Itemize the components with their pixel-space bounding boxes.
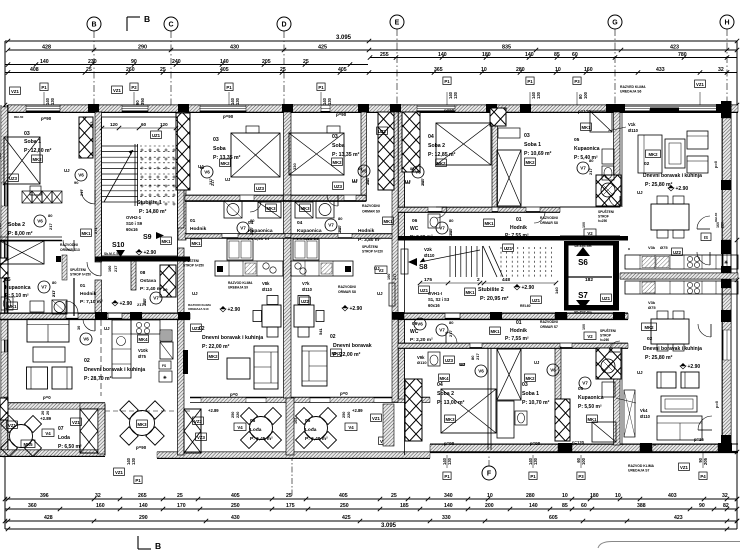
svg-text:10: 10 bbox=[487, 493, 493, 499]
svg-text:V6: V6 bbox=[550, 368, 556, 373]
svg-text:UREĐAJA S9: UREĐAJA S9 bbox=[228, 286, 248, 290]
svg-text:Ø110: Ø110 bbox=[424, 253, 435, 258]
svg-text:60: 60 bbox=[141, 122, 147, 127]
svg-text:p=90: p=90 bbox=[136, 445, 147, 450]
svg-text:04: 04 bbox=[297, 220, 303, 226]
svg-text:260: 260 bbox=[126, 67, 135, 73]
svg-text:Soba 1: Soba 1 bbox=[522, 391, 539, 397]
svg-text:UJ: UJ bbox=[534, 360, 540, 365]
svg-text:MK4: MK4 bbox=[439, 376, 449, 381]
svg-text:p=0: p=0 bbox=[713, 160, 718, 168]
svg-text:MK2: MK2 bbox=[208, 354, 218, 359]
svg-text:180: 180 bbox=[482, 52, 491, 58]
svg-text:60: 60 bbox=[572, 52, 578, 58]
svg-text:P: 13,00 m²: P: 13,00 m² bbox=[437, 400, 465, 406]
svg-text:+2.89: +2.89 bbox=[208, 408, 219, 413]
svg-text:P1: P1 bbox=[527, 79, 533, 84]
svg-text:UJ: UJ bbox=[405, 180, 411, 185]
svg-text:V10k: V10k bbox=[138, 348, 148, 353]
svg-text:165: 165 bbox=[294, 418, 298, 424]
svg-text:p=90: p=90 bbox=[530, 441, 541, 446]
svg-text:217: 217 bbox=[211, 180, 215, 186]
svg-text:140: 140 bbox=[554, 287, 559, 294]
svg-text:P: 10,70 m²: P: 10,70 m² bbox=[522, 400, 550, 406]
svg-text:Loda: Loda bbox=[58, 435, 70, 441]
svg-text:02: 02 bbox=[644, 161, 650, 167]
svg-text:405: 405 bbox=[338, 67, 347, 73]
svg-text:P: 5,10 m²: P: 5,10 m² bbox=[5, 293, 29, 299]
svg-text:80: 80 bbox=[200, 166, 204, 170]
svg-text:V6: V6 bbox=[415, 170, 421, 175]
svg-text:WC: WC bbox=[410, 329, 419, 335]
svg-text:MK1: MK1 bbox=[161, 239, 171, 244]
svg-text:160: 160 bbox=[584, 67, 593, 73]
svg-text:+2.90: +2.90 bbox=[228, 307, 241, 313]
svg-text:130: 130 bbox=[50, 97, 55, 105]
svg-text:S7: S7 bbox=[578, 291, 588, 300]
svg-text:p=0: p=0 bbox=[714, 400, 719, 408]
svg-text:ORMAR S7: ORMAR S7 bbox=[540, 325, 558, 329]
svg-text:P: 7,10 m²: P: 7,10 m² bbox=[80, 299, 103, 305]
svg-text:UJ: UJ bbox=[377, 291, 383, 296]
svg-text:80: 80 bbox=[410, 167, 414, 171]
svg-text:STROF: STROF bbox=[598, 215, 609, 219]
svg-text:3.095: 3.095 bbox=[336, 35, 352, 41]
svg-text:05: 05 bbox=[5, 277, 11, 283]
svg-text:V7: V7 bbox=[439, 328, 445, 333]
svg-text:20: 20 bbox=[41, 411, 45, 415]
svg-text:P: 20,95 m²: P: 20,95 m² bbox=[480, 296, 509, 302]
svg-text:P1: P1 bbox=[444, 474, 450, 479]
svg-text:780: 780 bbox=[678, 52, 687, 58]
svg-text:P: 12,80 m²: P: 12,80 m² bbox=[24, 148, 52, 154]
svg-text:VZ1: VZ1 bbox=[372, 416, 380, 421]
svg-text:32: 32 bbox=[95, 493, 101, 499]
svg-text:p=120: p=120 bbox=[578, 109, 591, 114]
svg-text:605: 605 bbox=[549, 515, 558, 521]
svg-text:23: 23 bbox=[89, 121, 94, 126]
svg-text:217: 217 bbox=[449, 230, 453, 236]
svg-text:VZ1: VZ1 bbox=[8, 423, 16, 428]
svg-text:E: E bbox=[395, 20, 400, 27]
svg-text:Soba 2: Soba 2 bbox=[428, 143, 445, 149]
svg-text:10: 10 bbox=[481, 67, 487, 73]
svg-text:217: 217 bbox=[448, 330, 453, 337]
svg-text:03: 03 bbox=[332, 134, 338, 140]
svg-text:130: 130 bbox=[453, 91, 458, 99]
svg-text:MK3: MK3 bbox=[445, 417, 455, 422]
svg-text:B: B bbox=[144, 14, 150, 24]
svg-text:60: 60 bbox=[581, 503, 587, 509]
svg-text:Rb-35/C-8m: Rb-35/C-8m bbox=[574, 310, 591, 314]
svg-text:Lođa: Lođa bbox=[250, 427, 262, 433]
svg-text:Ø110: Ø110 bbox=[262, 287, 273, 292]
svg-text:MK3: MK3 bbox=[137, 422, 147, 427]
svg-text:82: 82 bbox=[723, 503, 729, 509]
svg-text:85: 85 bbox=[562, 503, 568, 509]
svg-text:SPUŠTENI: SPUŠTENI bbox=[600, 328, 616, 333]
svg-text:REI-60: REI-60 bbox=[14, 115, 24, 119]
svg-text:Soba: Soba bbox=[332, 143, 345, 149]
svg-text:140: 140 bbox=[40, 59, 49, 65]
svg-text:200: 200 bbox=[485, 503, 494, 509]
svg-text:25: 25 bbox=[86, 67, 92, 73]
svg-text:p=90: p=90 bbox=[336, 112, 347, 117]
svg-text:217: 217 bbox=[338, 227, 342, 233]
svg-text:IS: IS bbox=[704, 235, 708, 240]
svg-text:UJ: UJ bbox=[352, 179, 358, 184]
svg-text:S1, S2 i S3: S1, S2 i S3 bbox=[428, 297, 450, 302]
svg-text:217: 217 bbox=[366, 179, 370, 185]
svg-text:UZ3: UZ3 bbox=[9, 176, 18, 181]
svg-text:03: 03 bbox=[522, 382, 528, 388]
svg-text:UJ: UJ bbox=[104, 326, 110, 331]
svg-text:P1: P1 bbox=[135, 478, 141, 483]
svg-text:P: 14,80 m²: P: 14,80 m² bbox=[139, 209, 167, 215]
svg-text:V7k: V7k bbox=[302, 281, 310, 286]
svg-text:408: 408 bbox=[30, 67, 39, 73]
svg-text:100: 100 bbox=[582, 222, 586, 228]
svg-text:03: 03 bbox=[524, 133, 530, 139]
svg-text:VZ1: VZ1 bbox=[680, 465, 688, 470]
svg-text:250: 250 bbox=[340, 503, 349, 509]
svg-text:Ø110: Ø110 bbox=[302, 287, 313, 292]
svg-text:06: 06 bbox=[412, 218, 418, 224]
svg-text:220: 220 bbox=[236, 412, 240, 418]
svg-text:UZ1: UZ1 bbox=[152, 133, 161, 138]
svg-text:S9: S9 bbox=[143, 234, 152, 241]
svg-text:175: 175 bbox=[424, 277, 432, 283]
svg-text:MK1: MK1 bbox=[587, 417, 597, 422]
svg-text:P: 25,80 m²: P: 25,80 m² bbox=[645, 182, 673, 188]
svg-text:Lođa: Lođa bbox=[305, 427, 317, 433]
svg-text:04: 04 bbox=[437, 382, 443, 388]
svg-text:ORMAR S8: ORMAR S8 bbox=[540, 221, 558, 225]
svg-text:10: 10 bbox=[555, 67, 561, 73]
svg-text:205: 205 bbox=[703, 457, 708, 465]
svg-text:UZ2: UZ2 bbox=[673, 250, 682, 255]
svg-text:428: 428 bbox=[44, 515, 53, 521]
svg-text:UJ: UJ bbox=[637, 370, 643, 375]
svg-text:V2: V2 bbox=[587, 231, 593, 236]
svg-text:130: 130 bbox=[447, 457, 452, 465]
svg-text:10: 10 bbox=[615, 493, 621, 499]
svg-text:UREĐAJA S10: UREĐAJA S10 bbox=[188, 307, 209, 311]
svg-text:V7: V7 bbox=[41, 285, 47, 290]
svg-text:217: 217 bbox=[143, 300, 147, 306]
svg-text:Ø110: Ø110 bbox=[628, 128, 639, 133]
svg-text:MK1: MK1 bbox=[581, 125, 591, 130]
svg-text:STROP: STROP bbox=[600, 334, 612, 338]
svg-text:388: 388 bbox=[637, 503, 646, 509]
svg-text:Stubište 2: Stubište 2 bbox=[478, 287, 504, 293]
svg-text:UZ1: UZ1 bbox=[504, 246, 513, 251]
svg-text:405: 405 bbox=[231, 493, 240, 499]
svg-text:Kupaonica: Kupaonica bbox=[5, 285, 31, 291]
svg-text:182: 182 bbox=[585, 277, 593, 283]
svg-text:UZ3: UZ3 bbox=[334, 184, 343, 189]
svg-text:H: H bbox=[724, 20, 729, 27]
svg-text:217: 217 bbox=[421, 180, 425, 186]
svg-text:130: 130 bbox=[536, 91, 541, 99]
svg-text:01: 01 bbox=[190, 218, 196, 224]
svg-text:P2: P2 bbox=[131, 85, 137, 90]
svg-text:130: 130 bbox=[131, 457, 136, 465]
svg-text:205: 205 bbox=[262, 59, 271, 65]
svg-text:p=0: p=0 bbox=[340, 391, 348, 396]
svg-text:433: 433 bbox=[656, 67, 665, 73]
svg-text:V1k: V1k bbox=[628, 122, 636, 127]
svg-text:V7: V7 bbox=[153, 296, 159, 301]
svg-text:B: B bbox=[91, 22, 96, 29]
svg-text:MK2: MK2 bbox=[525, 376, 535, 381]
svg-text:217: 217 bbox=[475, 353, 480, 360]
svg-text:VZ1: VZ1 bbox=[11, 89, 19, 94]
svg-text:01: 01 bbox=[516, 320, 522, 326]
svg-text:80: 80 bbox=[338, 216, 343, 221]
svg-text:V6: V6 bbox=[204, 170, 210, 175]
svg-text:MK4: MK4 bbox=[138, 337, 148, 342]
svg-text:07: 07 bbox=[58, 426, 64, 432]
svg-text:02: 02 bbox=[330, 334, 336, 340]
svg-text:Ø110: Ø110 bbox=[640, 414, 651, 419]
svg-text:100: 100 bbox=[581, 457, 586, 465]
svg-text:60x16: 60x16 bbox=[126, 227, 138, 232]
svg-text:S8: S8 bbox=[419, 264, 428, 271]
svg-text:Ø75: Ø75 bbox=[138, 354, 147, 359]
svg-text:Ø75: Ø75 bbox=[660, 245, 668, 250]
svg-text:217: 217 bbox=[588, 168, 593, 175]
svg-text:250: 250 bbox=[231, 503, 240, 509]
svg-text:STROP h=220: STROP h=220 bbox=[362, 250, 383, 254]
svg-text:425: 425 bbox=[318, 45, 327, 51]
svg-text:UZ3: UZ3 bbox=[445, 358, 454, 363]
svg-text:Hodnik: Hodnik bbox=[80, 291, 97, 297]
svg-text:MK1: MK1 bbox=[383, 219, 393, 224]
svg-text:Vk4: Vk4 bbox=[640, 408, 648, 413]
svg-text:448: 448 bbox=[502, 277, 510, 283]
svg-text:V6: V6 bbox=[417, 322, 423, 327]
svg-text:265: 265 bbox=[138, 493, 147, 499]
svg-text:SPUŠTENI: SPUŠTENI bbox=[598, 209, 614, 214]
svg-text:B: B bbox=[155, 541, 161, 550]
svg-text:60x16: 60x16 bbox=[428, 303, 440, 308]
svg-text:MK2: MK2 bbox=[32, 157, 42, 162]
svg-text:WC: WC bbox=[410, 226, 419, 232]
svg-text:100: 100 bbox=[583, 91, 588, 99]
svg-text:Soba 2: Soba 2 bbox=[8, 222, 25, 228]
svg-text:P: 2,20 m²: P: 2,20 m² bbox=[410, 234, 433, 240]
svg-text:90: 90 bbox=[74, 180, 79, 185]
svg-text:25: 25 bbox=[286, 493, 292, 499]
svg-text:+2.90: +2.90 bbox=[120, 301, 133, 307]
svg-text:05: 05 bbox=[574, 137, 580, 143]
svg-text:02: 02 bbox=[647, 336, 653, 342]
svg-text:100: 100 bbox=[582, 324, 586, 330]
svg-text:Eb-33/C-8m: Eb-33/C-8m bbox=[574, 244, 591, 248]
svg-text:ORMAR S8: ORMAR S8 bbox=[338, 290, 356, 294]
svg-text:UZ1: UZ1 bbox=[532, 298, 541, 303]
svg-text:MK2: MK2 bbox=[525, 160, 535, 165]
svg-text:Dnevni boravak i kuhinja: Dnevni boravak i kuhinja bbox=[643, 346, 702, 352]
svg-text:p=120: p=120 bbox=[572, 440, 585, 445]
svg-text:VZ3: VZ3 bbox=[194, 419, 202, 424]
svg-text:217: 217 bbox=[52, 291, 56, 297]
svg-text:Kupaonica: Kupaonica bbox=[578, 395, 604, 401]
svg-text:V4: V4 bbox=[237, 425, 243, 430]
svg-text:120: 120 bbox=[160, 122, 168, 127]
svg-text:+2.90: +2.90 bbox=[676, 186, 689, 192]
svg-text:REI-60: REI-60 bbox=[647, 443, 657, 447]
svg-text:405: 405 bbox=[339, 493, 348, 499]
svg-text:175: 175 bbox=[286, 503, 295, 509]
svg-text:p=90: p=90 bbox=[223, 114, 234, 119]
svg-text:230: 230 bbox=[88, 59, 97, 65]
svg-text:220: 220 bbox=[347, 412, 351, 418]
svg-text:Sb-M-C-5/m: Sb-M-C-5/m bbox=[104, 252, 122, 256]
svg-text:*: * bbox=[628, 248, 630, 254]
svg-text:220: 220 bbox=[721, 222, 725, 228]
svg-text:217: 217 bbox=[250, 229, 254, 235]
svg-text:3.095: 3.095 bbox=[381, 523, 397, 529]
svg-text:VZ1: VZ1 bbox=[72, 420, 80, 425]
svg-text:P: 5,40 m²: P: 5,40 m² bbox=[574, 155, 598, 161]
svg-text:ORMAR S9: ORMAR S9 bbox=[362, 210, 380, 214]
svg-text:280: 280 bbox=[526, 493, 535, 499]
svg-text:Soba 1: Soba 1 bbox=[24, 139, 41, 145]
svg-text:REI-60: REI-60 bbox=[520, 304, 531, 308]
svg-text:250: 250 bbox=[342, 412, 346, 418]
svg-text:217: 217 bbox=[48, 223, 53, 230]
svg-text:03: 03 bbox=[213, 137, 219, 143]
svg-text:170: 170 bbox=[177, 503, 186, 509]
svg-text:P: 6,50 m²: P: 6,50 m² bbox=[58, 444, 82, 450]
svg-text:Soba 1: Soba 1 bbox=[524, 142, 541, 148]
svg-text:423: 423 bbox=[674, 515, 683, 521]
svg-text:280: 280 bbox=[516, 67, 525, 73]
svg-text:130: 130 bbox=[235, 97, 240, 105]
svg-text:80: 80 bbox=[48, 213, 53, 218]
svg-text:255: 255 bbox=[380, 52, 389, 58]
svg-text:UZ1: UZ1 bbox=[602, 296, 611, 301]
svg-text:80: 80 bbox=[52, 280, 57, 285]
svg-text:80: 80 bbox=[449, 218, 454, 223]
svg-text:UZ2: UZ2 bbox=[378, 129, 387, 134]
svg-text:Dnevni boravak: Dnevni boravak bbox=[333, 343, 372, 349]
svg-text:V3k: V3k bbox=[648, 245, 656, 250]
svg-text:p=90: p=90 bbox=[41, 116, 52, 121]
svg-text:+2.90: +2.90 bbox=[688, 364, 701, 370]
svg-text:p=0: p=0 bbox=[230, 392, 238, 397]
svg-text:25: 25 bbox=[160, 67, 166, 73]
svg-text:02: 02 bbox=[84, 358, 90, 364]
svg-text:25: 25 bbox=[177, 493, 183, 499]
svg-text:p=15: p=15 bbox=[694, 437, 704, 442]
svg-text:05: 05 bbox=[578, 386, 584, 392]
svg-text:OVH2-1: OVH2-1 bbox=[126, 215, 142, 220]
svg-text:160: 160 bbox=[716, 222, 720, 228]
svg-text:20: 20 bbox=[46, 411, 50, 415]
svg-text:RAZVODNI: RAZVODNI bbox=[540, 216, 558, 220]
svg-text:P1: P1 bbox=[318, 85, 324, 90]
svg-text:06: 06 bbox=[412, 321, 418, 327]
svg-text:MK3: MK3 bbox=[266, 206, 276, 211]
svg-text:P: 7,55 m²: P: 7,55 m² bbox=[505, 233, 529, 239]
svg-text:MK3: MK3 bbox=[300, 206, 310, 211]
svg-text:VZ1: VZ1 bbox=[113, 88, 121, 93]
svg-text:80: 80 bbox=[250, 218, 255, 223]
svg-text:25: 25 bbox=[303, 59, 309, 65]
svg-text:90: 90 bbox=[699, 503, 705, 509]
svg-text:MK1: MK1 bbox=[191, 241, 201, 246]
svg-text:P: 2,40 m²: P: 2,40 m² bbox=[140, 286, 163, 292]
svg-text:OVH1-I: OVH1-I bbox=[428, 291, 442, 296]
svg-text:V2: V2 bbox=[587, 334, 593, 339]
svg-text:P: 12,85 m²: P: 12,85 m² bbox=[428, 152, 456, 158]
svg-text:Ø75: Ø75 bbox=[648, 305, 656, 310]
svg-text:360: 360 bbox=[28, 503, 37, 509]
svg-text:+2.90: +2.90 bbox=[350, 306, 363, 312]
svg-text:85: 85 bbox=[554, 52, 560, 58]
svg-text:P1: P1 bbox=[226, 85, 232, 90]
svg-text:03: 03 bbox=[24, 131, 30, 137]
svg-text:MK2: MK2 bbox=[436, 161, 446, 166]
svg-text:+2.90: +2.90 bbox=[144, 250, 157, 256]
svg-text:80: 80 bbox=[358, 167, 362, 171]
svg-text:430: 430 bbox=[231, 515, 240, 521]
svg-text:V6: V6 bbox=[37, 219, 43, 224]
svg-text:32: 32 bbox=[718, 67, 724, 73]
svg-text:h=260: h=260 bbox=[600, 338, 609, 342]
svg-text:Kupaonica: Kupaonica bbox=[574, 146, 600, 152]
svg-text:Dnevni boravak i kuhinja: Dnevni boravak i kuhinja bbox=[643, 173, 702, 179]
svg-text:V8k: V8k bbox=[262, 281, 270, 286]
svg-text:423: 423 bbox=[670, 45, 679, 51]
svg-text:S6: S6 bbox=[578, 258, 588, 267]
svg-text:32: 32 bbox=[722, 493, 728, 499]
svg-text:MK1: MK1 bbox=[465, 290, 475, 295]
svg-text:D: D bbox=[281, 22, 286, 29]
svg-text:P: 22,00 m²: P: 22,00 m² bbox=[202, 344, 230, 350]
svg-text:S10 i S9: S10 i S9 bbox=[126, 221, 143, 226]
svg-text:Soba: Soba bbox=[213, 146, 226, 152]
svg-text:P1: P1 bbox=[530, 474, 536, 479]
svg-text:MK2: MK2 bbox=[332, 160, 342, 165]
svg-text:p=0: p=0 bbox=[43, 395, 51, 400]
svg-text:217: 217 bbox=[79, 189, 84, 196]
svg-text:UREDAJA S6: UREDAJA S6 bbox=[620, 90, 641, 94]
svg-text:P3: P3 bbox=[574, 79, 580, 84]
svg-text:290: 290 bbox=[138, 45, 147, 51]
svg-text:P: 25,80 m²: P: 25,80 m² bbox=[645, 355, 673, 361]
svg-text:428: 428 bbox=[42, 45, 51, 51]
svg-text:p=90: p=90 bbox=[444, 441, 455, 446]
svg-text:FS: FS bbox=[162, 364, 166, 368]
svg-text:G: G bbox=[612, 20, 618, 27]
svg-text:MK2: MK2 bbox=[220, 161, 230, 166]
svg-text:330: 330 bbox=[292, 163, 297, 170]
svg-text:MK2: MK2 bbox=[644, 325, 654, 330]
svg-text:P: 8,00 m²: P: 8,00 m² bbox=[8, 231, 33, 237]
svg-text:80: 80 bbox=[449, 320, 454, 325]
svg-text:h=250: h=250 bbox=[598, 219, 607, 223]
svg-text:STROP h=250: STROP h=250 bbox=[183, 264, 204, 268]
svg-text:V2k: V2k bbox=[424, 247, 432, 252]
svg-text:430: 430 bbox=[230, 45, 239, 51]
svg-text:F: F bbox=[487, 471, 492, 478]
svg-text:10: 10 bbox=[562, 493, 568, 499]
svg-text:P3: P3 bbox=[578, 474, 584, 479]
